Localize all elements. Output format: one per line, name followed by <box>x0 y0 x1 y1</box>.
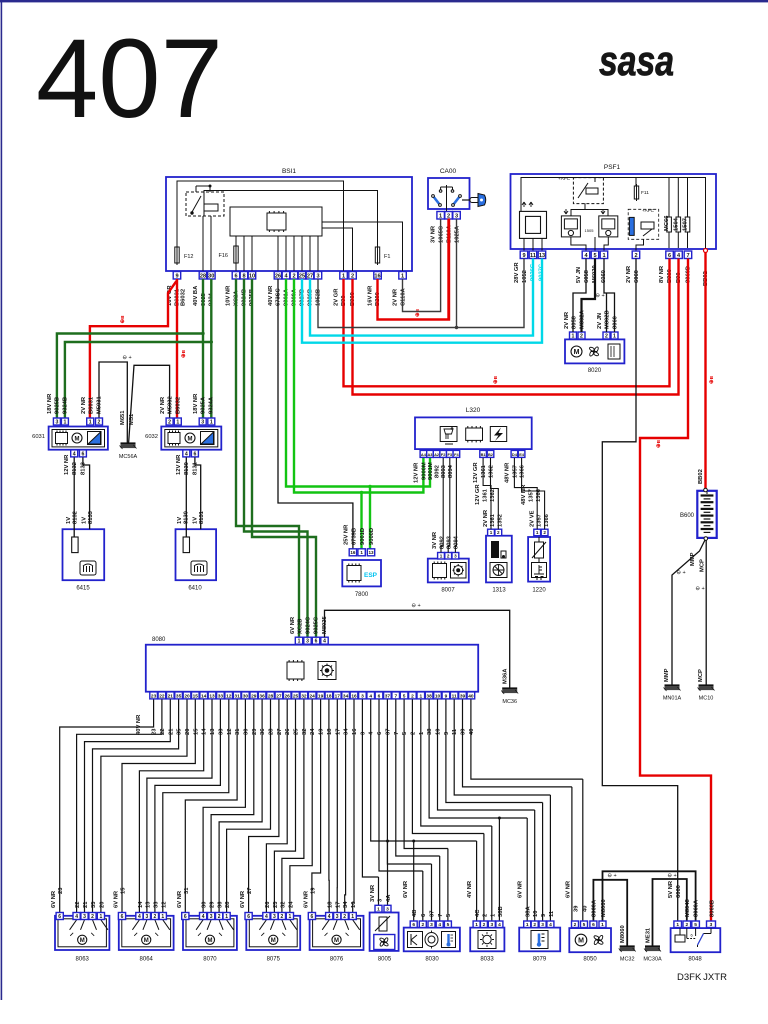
contacts 8075 <box>259 920 297 936</box>
svg-text:2: 2 <box>533 922 536 928</box>
pump symbol 1313 <box>490 563 507 578</box>
svg-text:1: 1 <box>602 253 605 259</box>
svg-text:2V NR: 2V NR <box>393 288 399 306</box>
wire battery feed B6032 red <box>176 279 178 418</box>
svg-text:6V NR: 6V NR <box>114 890 120 908</box>
box 8079 <box>519 928 560 952</box>
motor 8064 M <box>142 935 151 944</box>
pressostat symbol 8030 <box>425 931 438 949</box>
wire black M6020 PSF5-8020 <box>582 259 596 333</box>
svg-text:6: 6 <box>377 731 383 735</box>
svg-text:2: 2 <box>497 530 500 535</box>
fuse F12 <box>175 245 179 265</box>
svg-text:M802B: M802B <box>605 310 611 329</box>
resistor symbol 8020 <box>608 344 620 359</box>
value labels 8075 wires <box>240 888 294 908</box>
svg-text:8092: 8092 <box>440 536 446 549</box>
sun symbol 8033 <box>478 931 496 949</box>
svg-text:4: 4 <box>498 922 501 928</box>
svg-text:25: 25 <box>294 728 300 735</box>
svg-text:1: 1 <box>225 914 228 920</box>
wire black 6060 PSF1-8020 <box>604 259 615 333</box>
svg-text:37: 37 <box>385 693 391 699</box>
svg-text:6: 6 <box>378 693 381 699</box>
wire cyan 9026 BSI25-PSF13 <box>302 259 542 343</box>
svg-text:2: 2 <box>154 914 157 920</box>
ignition switch contacts CA00 <box>439 185 454 211</box>
fuse F16 <box>234 244 238 265</box>
svg-text:4: 4 <box>202 914 205 920</box>
box PSF1 <box>511 174 717 249</box>
wire black MC30A-8048 <box>653 879 687 946</box>
K symbol 8030 <box>408 932 423 948</box>
connector pins 8048 pin3 <box>707 921 716 928</box>
ground MC32 <box>619 947 636 953</box>
value labels 8030 wires <box>403 880 452 917</box>
svg-text:3V NR: 3V NR <box>431 225 437 243</box>
connector pins 8064 pins <box>118 913 166 920</box>
svg-text:1: 1 <box>377 907 380 913</box>
value labels CA00 wires <box>431 224 461 243</box>
svg-text:16: 16 <box>374 273 380 279</box>
svg-text:16: 16 <box>350 550 356 555</box>
svg-text:38: 38 <box>426 693 432 699</box>
svg-text:4V NR: 4V NR <box>467 880 473 898</box>
gear symbol 8080 <box>318 662 336 680</box>
svg-text:BSI1: BSI1 <box>282 168 296 175</box>
svg-text:MCP: MCP <box>698 669 704 682</box>
wire black 8050-MC32 <box>593 880 627 946</box>
box B600 <box>697 491 716 538</box>
value labels 6410 wires <box>176 454 205 524</box>
svg-text:6V NR: 6V NR <box>240 890 246 908</box>
svg-text:5V JN: 5V JN <box>576 267 582 283</box>
svg-text:6: 6 <box>58 914 61 920</box>
inner frame 6032 <box>165 430 218 447</box>
value labels psf res labels <box>664 215 689 231</box>
value labels 8080 top wires <box>290 615 328 634</box>
svg-text:6: 6 <box>691 933 694 938</box>
svg-text:5: 5 <box>403 693 406 699</box>
wire green 9324B branch <box>65 342 211 418</box>
window lift symbol 6032 <box>201 432 215 445</box>
relay +APC PSF1 (dashed) <box>573 178 603 204</box>
diagnostic plug symbol L320 <box>440 427 457 445</box>
value labels 8064 wires <box>114 887 168 908</box>
value labels 6415 wires <box>64 454 94 524</box>
box 8030 <box>404 928 460 952</box>
svg-text:2: 2 <box>685 922 688 928</box>
svg-text:⊖ +: ⊖ + <box>122 355 131 361</box>
svg-text:1220: 1220 <box>532 588 546 594</box>
value labels 8076 wires <box>303 887 357 908</box>
svg-text:6032: 6032 <box>145 434 158 440</box>
svg-text:MMP: MMP <box>690 552 696 566</box>
svg-text:1504: 1504 <box>673 217 679 231</box>
svg-text:40V NR: 40V NR <box>136 714 142 735</box>
svg-text:1: 1 <box>401 273 404 279</box>
svg-text:28: 28 <box>200 273 206 279</box>
svg-text:6: 6 <box>668 253 671 259</box>
inner frame 6031 <box>52 430 105 447</box>
svg-text:1: 1 <box>176 419 179 425</box>
box 6410 <box>176 529 217 580</box>
battery cells B600 <box>701 492 714 533</box>
svg-text:1505: 1505 <box>585 228 595 233</box>
svg-text:6V NR: 6V NR <box>403 880 409 898</box>
svg-text:8060A: 8060A <box>592 899 598 917</box>
svg-text:⊕в: ⊕в <box>709 375 715 384</box>
svg-text:8005: 8005 <box>378 956 392 962</box>
motor 8020 M <box>571 346 582 357</box>
svg-text:⊕в: ⊕в <box>181 349 187 358</box>
svg-text:1362: 1362 <box>489 465 495 478</box>
svg-text:48V NR: 48V NR <box>505 462 511 483</box>
value labels 7800 wires <box>344 524 376 545</box>
svg-text:F1: F1 <box>384 254 390 260</box>
svg-text:2V JN: 2V JN <box>597 313 603 329</box>
svg-text:19: 19 <box>318 693 324 699</box>
svg-text:4: 4 <box>369 731 375 735</box>
svg-text:6: 6 <box>412 922 415 928</box>
svg-text:34: 34 <box>343 901 349 908</box>
value labels MC56A wires <box>120 410 135 425</box>
key symbol <box>462 194 486 207</box>
value labels B600 wires <box>664 552 706 682</box>
svg-text:38: 38 <box>427 728 433 735</box>
wire lime 9000D drop <box>360 493 362 549</box>
svg-text:40: 40 <box>469 729 475 735</box>
svg-text:13: 13 <box>145 901 151 908</box>
svg-text:F12: F12 <box>184 254 193 260</box>
svg-text:M: M <box>75 436 80 442</box>
svg-text:1: 1 <box>360 550 363 555</box>
svg-text:34: 34 <box>344 728 350 735</box>
box 6031 <box>49 427 108 450</box>
ground MN01A <box>664 686 681 692</box>
svg-text:1: 1 <box>161 914 164 920</box>
motor 8050 M <box>575 934 587 946</box>
svg-text:19: 19 <box>319 728 325 735</box>
svg-text:27: 27 <box>276 693 282 699</box>
svg-text:6415: 6415 <box>76 586 90 592</box>
box 8063 <box>55 916 109 950</box>
value labels 8007 wires <box>432 531 460 549</box>
svg-text:8063: 8063 <box>76 956 90 962</box>
svg-text:3: 3 <box>490 922 493 928</box>
svg-text:40: 40 <box>468 693 474 699</box>
wire black 6058 PSF4-8020 <box>573 259 586 333</box>
svg-text:6: 6 <box>311 914 314 920</box>
connector pins 6032 top <box>166 418 215 425</box>
svg-text:2: 2 <box>543 530 546 535</box>
svg-text:19: 19 <box>310 887 316 894</box>
svg-text:2: 2 <box>483 914 489 917</box>
svg-text:8133: 8133 <box>81 461 87 475</box>
junction junction 9324 <box>210 340 213 343</box>
connector pins 1313 pins <box>488 529 502 536</box>
svg-text:⊕в: ⊕в <box>493 375 499 384</box>
wires 8080 to HVAC units (right fan) <box>362 699 582 921</box>
value labels 8005 wires <box>370 884 392 902</box>
gear symbol 8007 <box>451 563 467 579</box>
svg-text:40: 40 <box>583 906 589 912</box>
svg-text:12V NR: 12V NR <box>64 454 70 475</box>
box 8005 <box>370 913 399 951</box>
value labels 1313 wires <box>475 484 504 527</box>
svg-text:M8060: M8060 <box>601 899 607 917</box>
svg-text:28V GR: 28V GR <box>514 262 520 283</box>
svg-text:ESP: ESP <box>364 572 378 579</box>
svg-text:30: 30 <box>243 729 249 735</box>
box 8064 <box>119 916 174 950</box>
svg-text:1: 1 <box>475 922 478 928</box>
svg-text:MC10: MC10 <box>699 696 714 702</box>
svg-text:M8060: M8060 <box>620 925 626 943</box>
svg-text:+APC: +APC <box>642 208 655 213</box>
svg-text:4: 4 <box>549 922 552 928</box>
svg-text:1313: 1313 <box>492 588 506 594</box>
wire green 9024 BSI8-8080 <box>244 279 308 637</box>
svg-text:13: 13 <box>539 253 545 259</box>
svg-text:15: 15 <box>193 728 199 735</box>
junction junction 1025A <box>455 326 458 329</box>
svg-text:6: 6 <box>121 914 124 920</box>
value labels 8079 wires <box>518 880 556 917</box>
wire ignition feed B200 red <box>378 219 450 320</box>
svg-text:9: 9 <box>444 731 450 735</box>
wire BSI1 internal bus top <box>177 181 344 271</box>
wire black M51 6032-gnd <box>129 365 170 443</box>
wire cyan 9027 BSI27-PSF11 <box>310 259 533 336</box>
connector pins 8020 pins <box>570 332 619 339</box>
IC symbol BSI chip U1 <box>267 211 286 232</box>
svg-text:2: 2 <box>281 914 284 920</box>
svg-text:1: 1 <box>298 639 301 645</box>
motor 8075 M <box>269 935 278 944</box>
svg-text:2V NR: 2V NR <box>81 396 87 414</box>
svg-text:9025B: 9025B <box>55 397 61 414</box>
svg-text:9324A: 9324A <box>209 396 215 414</box>
junction junction 9025 <box>201 332 204 335</box>
svg-text:35: 35 <box>177 728 183 735</box>
svg-text:6V NR: 6V NR <box>51 890 57 908</box>
wire black 1362 <box>491 458 499 529</box>
svg-text:38B: 38B <box>498 906 504 917</box>
svg-text:2: 2 <box>292 273 295 279</box>
wire lime 9001 BSI4-L320 <box>286 279 430 487</box>
svg-text:8070: 8070 <box>203 956 217 962</box>
wire BSI1 relay drops <box>203 216 211 271</box>
wire black 673SC BSI26-7800 <box>278 279 353 549</box>
svg-text:2V NR: 2V NR <box>483 509 489 527</box>
svg-text:8007: 8007 <box>441 588 455 594</box>
svg-text:M: M <box>578 937 584 944</box>
svg-text:28: 28 <box>225 901 231 908</box>
svg-text:6060: 6060 <box>634 270 640 283</box>
box 8020 <box>565 339 624 363</box>
box 8070 <box>183 916 237 950</box>
connector pins 6031 bottom <box>71 450 87 457</box>
svg-text:5: 5 <box>446 913 452 917</box>
value labels 8033 wires <box>467 880 504 917</box>
svg-text:sasa: sasa <box>599 37 674 84</box>
svg-text:29: 29 <box>252 728 258 735</box>
wire BSI1 internal bus 2 <box>204 191 378 248</box>
svg-text:9024C: 9024C <box>306 616 312 634</box>
svg-text:4: 4 <box>265 914 268 920</box>
svg-text:7800: 7800 <box>355 592 369 598</box>
svg-text:2V NR: 2V NR <box>160 396 166 414</box>
svg-text:25: 25 <box>299 273 305 279</box>
svg-text:1V: 1V <box>193 517 199 524</box>
svg-text:28: 28 <box>268 693 274 699</box>
svg-text:F11: F11 <box>641 190 649 196</box>
svg-text:1052: 1052 <box>522 270 528 283</box>
svg-text:9001M: 9001M <box>428 462 434 480</box>
relay 2 PSF1 <box>599 209 618 237</box>
connector pins BSI1 bottom <box>173 272 406 280</box>
svg-text:B1: B1 <box>481 452 487 457</box>
svg-text:8060: 8060 <box>613 316 619 329</box>
connector pins 8075 pins <box>245 913 294 920</box>
svg-text:9001D: 9001D <box>360 528 366 545</box>
value labels 8080 bottom wires <box>136 714 475 735</box>
svg-text:3: 3 <box>146 914 149 920</box>
svg-text:31: 31 <box>235 728 241 735</box>
svg-text:ME31: ME31 <box>646 927 652 943</box>
junction junction 9001D <box>368 485 371 488</box>
wire lime 9000 BSI2-L320 <box>294 279 423 493</box>
junction net split 388 <box>386 840 389 843</box>
element 6410 <box>183 537 189 553</box>
svg-text:9: 9 <box>541 913 547 917</box>
wire PSF pin feeds <box>524 237 644 251</box>
wire BSI1 internal right <box>322 222 403 271</box>
connector pins 1220 pins <box>534 529 548 536</box>
key switch blades <box>432 195 462 207</box>
svg-text:38A: 38A <box>526 906 532 917</box>
svg-text:2: 2 <box>168 419 171 425</box>
svg-text:10: 10 <box>533 911 539 917</box>
wire PSF1 internal top bus <box>521 178 706 249</box>
svg-text:2: 2 <box>580 333 583 339</box>
svg-text:9025C: 9025C <box>314 616 320 634</box>
svg-text:L320: L320 <box>466 407 481 414</box>
motor 8070 M <box>205 935 214 944</box>
svg-text:34: 34 <box>343 693 349 699</box>
svg-text:8131: 8131 <box>199 510 205 524</box>
svg-text:3: 3 <box>316 273 319 279</box>
svg-text:1025A: 1025A <box>455 225 461 243</box>
svg-text:33: 33 <box>153 901 159 908</box>
svg-text:C110A: C110A <box>401 287 407 306</box>
wire black 8094 <box>455 458 456 553</box>
svg-text:8079: 8079 <box>533 957 547 963</box>
svg-text:31: 31 <box>234 693 240 699</box>
svg-text:40V BA: 40V BA <box>193 285 199 306</box>
svg-text:3: 3 <box>541 922 544 928</box>
svg-text:6V NR: 6V NR <box>290 616 296 634</box>
svg-text:3: 3 <box>454 553 457 558</box>
svg-text:1065C: 1065C <box>439 225 445 243</box>
box 8007 <box>428 559 469 583</box>
svg-text:11: 11 <box>452 728 458 735</box>
svg-text:M: M <box>207 938 212 944</box>
svg-text:1V: 1V <box>82 517 88 524</box>
svg-text:26: 26 <box>275 273 281 279</box>
svg-text:8132: 8132 <box>72 462 78 475</box>
svg-text:29: 29 <box>210 901 216 908</box>
svg-text:M8048: M8048 <box>685 898 691 917</box>
wires 8080 to door motor units (left fan) <box>60 699 354 912</box>
svg-text:21: 21 <box>168 728 174 735</box>
svg-text:1357: 1357 <box>512 465 518 478</box>
svg-text:12V GR: 12V GR <box>475 484 481 505</box>
svg-text:31: 31 <box>184 887 190 894</box>
svg-text:35: 35 <box>176 693 182 699</box>
IC symbol 8080 chip <box>287 660 304 681</box>
thermometer symbol 8079 <box>531 931 548 949</box>
svg-text:3: 3 <box>430 922 433 928</box>
motor 8063 M <box>78 935 87 944</box>
svg-text:5: 5 <box>402 731 408 735</box>
svg-text:M: M <box>80 938 85 944</box>
svg-text:21: 21 <box>83 901 89 908</box>
relay BSI internal (dashed) <box>186 186 224 216</box>
svg-text:10: 10 <box>436 729 442 735</box>
thermistor 1220 <box>532 537 546 562</box>
svg-text:M: M <box>144 938 149 944</box>
svg-text:6: 6 <box>421 913 427 917</box>
motor 8076 M <box>332 935 341 944</box>
svg-text:D3FK JXTR: D3FK JXTR <box>677 972 727 983</box>
svg-text:24: 24 <box>310 693 316 699</box>
svg-text:XC2B: XC2B <box>298 619 304 634</box>
svg-text:8094: 8094 <box>448 464 454 478</box>
switch +APC 2 PSF1 (dashed) <box>628 209 659 239</box>
svg-text:407: 407 <box>36 16 223 141</box>
svg-text:2: 2 <box>91 914 94 920</box>
value labels 8050 wires <box>566 880 608 917</box>
svg-text:11: 11 <box>452 693 457 699</box>
svg-text:12: 12 <box>226 693 232 699</box>
svg-text:8080: 8080 <box>152 637 166 643</box>
svg-text:3V NR: 3V NR <box>432 531 438 549</box>
svg-text:20: 20 <box>184 693 190 699</box>
IC symbol 6031 chip <box>56 431 68 446</box>
wire gray 1025A CA00-3 <box>456 219 458 328</box>
fuse F1 <box>375 245 379 265</box>
wire wire 8132 <box>73 457 75 537</box>
svg-text:10: 10 <box>249 273 255 279</box>
junction junction 9000D <box>360 491 363 494</box>
svg-text:8033: 8033 <box>480 957 494 963</box>
wire black 8092 <box>441 458 443 553</box>
svg-text:26: 26 <box>285 728 291 735</box>
svg-text:1: 1 <box>419 693 422 699</box>
connector pins 8079 pins <box>524 921 554 928</box>
svg-text:29: 29 <box>251 693 257 699</box>
value labels 8048 wires <box>668 880 716 917</box>
connector pins 6032 bottom <box>183 450 199 457</box>
wire black 8050pin1-8048pin5 <box>603 871 696 920</box>
svg-text:6739B: 6739B <box>352 528 358 545</box>
svg-text:6060: 6060 <box>676 885 682 898</box>
svg-text:8131: 8131 <box>193 461 199 475</box>
svg-text:16: 16 <box>351 693 357 699</box>
svg-text:M: M <box>574 349 580 356</box>
